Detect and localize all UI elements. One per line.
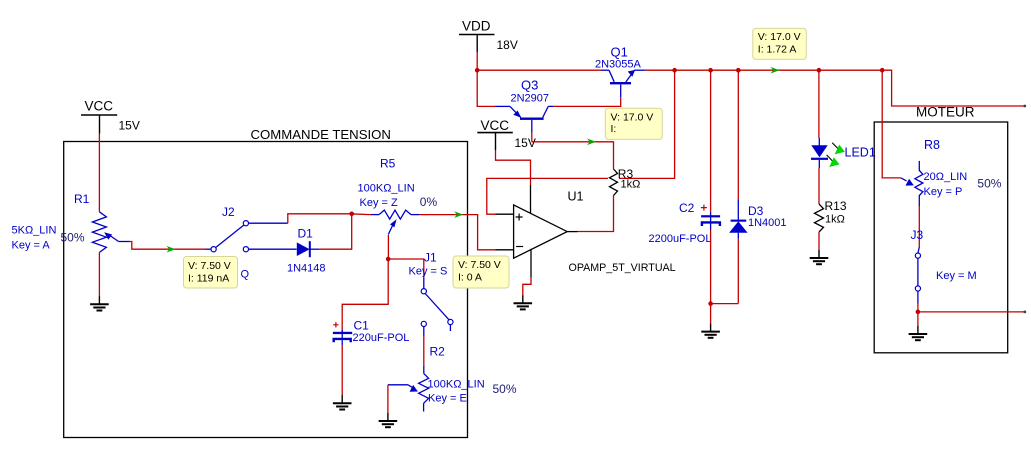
wire C2 node to D3 anode xyxy=(711,303,739,305)
wire op-amp output to R3 xyxy=(578,196,614,232)
svg-text:V: 17.0 V: V: 17.0 V xyxy=(758,31,801,43)
svg-text:R8: R8 xyxy=(924,138,940,152)
svg-text:220uF-POL: 220uF-POL xyxy=(353,332,410,344)
op-amp U1 xyxy=(496,185,578,278)
wire op-amp V- to ground xyxy=(523,278,531,296)
wire rail to C2 xyxy=(710,70,712,212)
node C2-D3 junction xyxy=(708,301,713,306)
wire Q3 collector to Q1 base xyxy=(554,97,621,106)
probe V: 17.0 V / I: (Q1 base) xyxy=(605,108,662,139)
svg-text:100KΩ_LIN: 100KΩ_LIN xyxy=(428,379,485,391)
wire J2 top throw to node A xyxy=(249,214,349,223)
node B junction xyxy=(386,257,391,262)
potentiometer R8 xyxy=(901,161,923,206)
svg-text:R13: R13 xyxy=(825,199,847,213)
box MOTEUR xyxy=(874,105,1008,353)
wire node A to R5 xyxy=(349,213,371,216)
wire D1 cathode up to node A xyxy=(320,214,352,249)
diode D3 1N4001 xyxy=(729,200,748,239)
svg-text:D3: D3 xyxy=(748,204,764,218)
svg-text:50%: 50% xyxy=(493,382,517,396)
wire feedback to op-amp plus input xyxy=(487,70,675,214)
svg-text:R1: R1 xyxy=(74,192,90,206)
svg-text:C2: C2 xyxy=(679,201,695,215)
wire D3 anode down xyxy=(737,239,739,304)
diode D1 1N4148 xyxy=(297,241,320,257)
svg-text:Key = S: Key = S xyxy=(409,266,448,278)
ground (C1) xyxy=(333,395,352,409)
svg-text:2N3055A: 2N3055A xyxy=(595,59,642,71)
ground (op-amp) xyxy=(514,295,533,309)
LED LED1 xyxy=(811,138,828,168)
switch J2 xyxy=(211,221,248,252)
node rail-R8 junction xyxy=(880,68,885,73)
capacitor C2 2200uF-POL xyxy=(701,205,720,230)
svg-text:D1: D1 xyxy=(298,227,314,241)
svg-text:LED1: LED1 xyxy=(845,146,876,160)
svg-text:V: 7.50 V: V: 7.50 V xyxy=(188,260,231,272)
node rail-C2 junction xyxy=(708,68,713,73)
node rail-LED junction xyxy=(817,68,822,73)
svg-text:Key = M: Key = M xyxy=(936,270,977,282)
svg-text:VDD: VDD xyxy=(462,19,491,34)
resistor R13 xyxy=(815,204,824,232)
svg-text:1kΩ: 1kΩ xyxy=(621,178,641,190)
svg-text:15V: 15V xyxy=(119,119,140,133)
label 5KΩ_LIN / Key = A xyxy=(12,225,57,252)
potentiometer R2 xyxy=(388,373,429,411)
capacitor C1 220uF-POL xyxy=(333,322,352,345)
probe V: 7.50 V / I: 119 nA xyxy=(184,257,238,289)
svg-text:Q3: Q3 xyxy=(521,78,538,93)
wire node B to J1 xyxy=(388,259,424,289)
svg-text:J2: J2 xyxy=(222,205,235,219)
wire node B to C1 xyxy=(342,259,388,332)
svg-text:Key = A: Key = A xyxy=(12,240,51,252)
node rail-feedback junction xyxy=(672,68,677,73)
switch J3 xyxy=(915,253,920,304)
svg-text:1N4001: 1N4001 xyxy=(748,217,787,229)
ground (R1) xyxy=(90,252,109,310)
power VDD (18V) xyxy=(459,19,518,53)
svg-text:C1: C1 xyxy=(354,319,370,333)
svg-text:VCC: VCC xyxy=(481,118,510,133)
wire R8 to J3 xyxy=(918,206,919,253)
current arrow (R3 wire) xyxy=(587,139,596,146)
svg-text:R2: R2 xyxy=(430,345,446,359)
wire J3 to ground and out xyxy=(918,304,1026,326)
svg-text:50%: 50% xyxy=(977,177,1001,191)
svg-text:MOTEUR: MOTEUR xyxy=(916,105,975,120)
wire R5 to op-amp minus input xyxy=(419,215,496,250)
wire VCC to R1 xyxy=(98,134,100,212)
svg-text:VCC: VCC xyxy=(85,99,114,114)
wire J1 left throw to R2 xyxy=(423,327,425,374)
svg-text:I:: I: xyxy=(611,123,617,135)
svg-text:1N4148: 1N4148 xyxy=(287,263,326,275)
wire VCC to op-amp V+ xyxy=(496,150,531,185)
probe V: 7.50 V / I: 0 A xyxy=(453,256,509,288)
svg-text:U1: U1 xyxy=(568,190,584,204)
node VDD junction xyxy=(475,68,480,73)
box COMMANDE TENSION xyxy=(64,127,468,438)
svg-text:R5: R5 xyxy=(380,157,396,171)
wire rail to LED1 xyxy=(818,70,820,138)
power VCC (left, 15V) xyxy=(81,99,140,134)
svg-text:V: 17.0 V: V: 17.0 V xyxy=(611,111,654,123)
ground (R13) xyxy=(810,250,829,264)
svg-text:V: 7.50 V: V: 7.50 V xyxy=(458,259,501,271)
svg-text:Key = P: Key = P xyxy=(924,186,963,198)
wire J2 bottom throw to D1 xyxy=(249,248,297,250)
transistor Q1 2N3055A xyxy=(601,70,645,97)
resistor R3 xyxy=(610,169,618,196)
potentiometer R1 xyxy=(92,212,129,253)
wire C2 node to ground xyxy=(710,304,712,324)
wire rail to D3 cathode xyxy=(737,70,739,199)
wire C2 to ground node xyxy=(710,230,712,304)
svg-text:100KΩ_LIN: 100KΩ_LIN xyxy=(358,183,415,195)
wire rail to R8 wiper xyxy=(882,70,901,178)
potentiometer R5 xyxy=(371,210,419,234)
wire VDD branch to Q3 emitter xyxy=(477,70,495,106)
svg-text:Key = E: Key = E xyxy=(428,393,467,405)
svg-text:Q: Q xyxy=(241,269,250,281)
svg-text:I: 1.72 A: I: 1.72 A xyxy=(758,44,797,56)
node J3 junction xyxy=(916,310,921,315)
node A junction xyxy=(349,212,354,217)
svg-text:J3: J3 xyxy=(911,228,924,242)
ground (motor) xyxy=(909,326,928,340)
wire C1 to ground xyxy=(341,345,343,395)
current arrow (R1 wiper wire) xyxy=(167,246,176,253)
svg-text:5KΩ_LIN: 5KΩ_LIN xyxy=(12,225,57,237)
svg-text:I: 0 A: I: 0 A xyxy=(458,271,482,283)
svg-text:OPAMP_5T_VIRTUAL: OPAMP_5T_VIRTUAL xyxy=(569,262,676,274)
svg-text:15V: 15V xyxy=(515,136,536,150)
svg-text:20Ω_LIN: 20Ω_LIN xyxy=(924,171,968,183)
svg-text:1kΩ: 1kΩ xyxy=(825,214,845,226)
svg-text:Key = Z: Key = Z xyxy=(360,197,398,209)
svg-text:J1: J1 xyxy=(424,251,437,265)
wire Q3 base down xyxy=(531,133,533,142)
svg-text:Q1: Q1 xyxy=(611,45,628,60)
ground (C2) xyxy=(701,324,720,338)
wire R2 wiper to ground xyxy=(387,385,389,413)
wire VDD to rail xyxy=(476,52,478,70)
switch J1 xyxy=(421,289,453,331)
wire R5 wiper to node B xyxy=(387,235,389,259)
svg-text:2200uF-POL: 2200uF-POL xyxy=(649,233,712,245)
wire LED1 to R13 xyxy=(818,168,820,204)
probe V: 17.0 V / I: 1.72 A xyxy=(753,28,807,59)
svg-text:I: 119 nA: I: 119 nA xyxy=(188,273,229,285)
svg-text:18V: 18V xyxy=(497,38,518,52)
svg-text:2N2907: 2N2907 xyxy=(511,93,550,105)
transistor Q3 2N2907 xyxy=(496,106,554,132)
current arrow (rail) xyxy=(771,67,780,74)
svg-text:0%: 0% xyxy=(420,195,438,209)
current arrow (R5 output wire) xyxy=(454,211,463,218)
wire rail left segment (VDD to Q1 collector) xyxy=(477,69,601,71)
svg-text:50%: 50% xyxy=(61,230,85,244)
node rail-D3 junction xyxy=(736,68,741,73)
wire R3 to Q3 base xyxy=(532,142,614,169)
power VCC (op-amp, 15V) xyxy=(477,118,536,150)
wire R1 wiper to J2 xyxy=(130,242,206,250)
ground (R2 wiper) xyxy=(379,413,398,427)
wire rail right segment (Q1 emitter to motor) xyxy=(645,70,1025,106)
svg-text:COMMANDE TENSION: COMMANDE TENSION xyxy=(251,127,391,142)
wire R13 to ground xyxy=(818,232,820,250)
LED light arrows xyxy=(827,143,845,167)
